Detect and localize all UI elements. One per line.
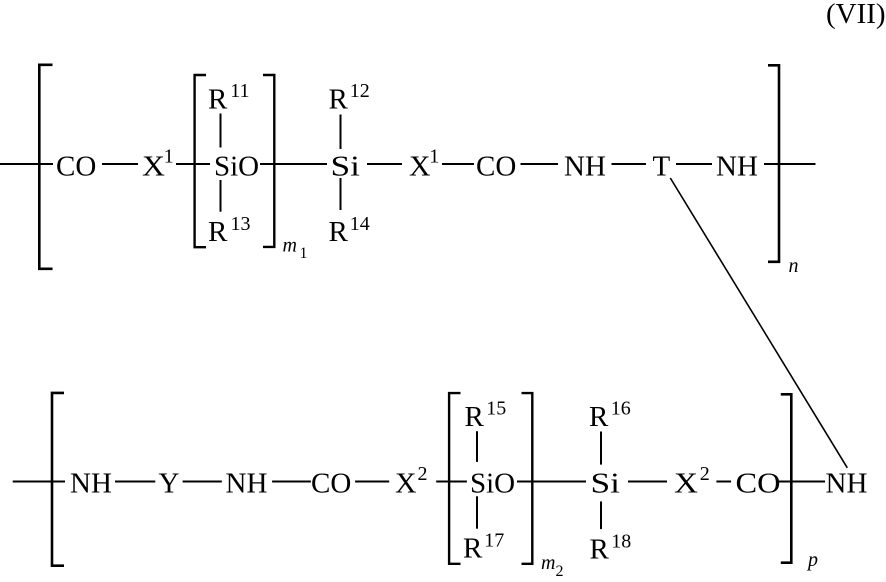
wire bond Si to X1 row1 xyxy=(367,163,402,165)
wire bond Y to NH row2 xyxy=(183,481,222,483)
bracket inner-right m1 group xyxy=(263,75,274,247)
wire bond X1 to CO row1 xyxy=(442,163,474,165)
wire bond SiO to R13 xyxy=(220,180,222,212)
svg-text:16: 16 xyxy=(611,398,631,420)
svg-text:15: 15 xyxy=(486,398,506,420)
wire bond CO to X1 row1 xyxy=(102,163,138,165)
svg-text:Si: Si xyxy=(331,151,361,183)
bracket outer-left row1 xyxy=(39,65,52,269)
svg-text:T: T xyxy=(653,151,671,183)
svg-text:NH: NH xyxy=(716,151,758,183)
wire bond R15 to SiO xyxy=(476,431,478,462)
wire bond Si to R18 xyxy=(600,501,602,529)
svg-text:18: 18 xyxy=(611,531,631,553)
svg-text:p: p xyxy=(806,549,818,571)
wire bond X2 to SiO group row2 xyxy=(436,481,467,483)
bracket outer-right row1 xyxy=(768,65,779,261)
svg-text:CO: CO xyxy=(476,151,516,183)
svg-text:R: R xyxy=(589,401,609,433)
wire bond T to NH row1 xyxy=(676,163,712,165)
wire bond Si to R14 xyxy=(340,178,342,210)
svg-text:R: R xyxy=(463,533,483,565)
svg-text:2: 2 xyxy=(556,563,564,577)
svg-text:(VII): (VII) xyxy=(826,0,886,30)
bracket inner-left m2 group xyxy=(449,393,460,564)
svg-text:m: m xyxy=(283,234,297,256)
svg-text:14: 14 xyxy=(350,213,370,235)
wire leading bond row1 xyxy=(0,163,53,165)
svg-text:NH: NH xyxy=(70,468,112,500)
svg-text:R: R xyxy=(329,83,349,115)
wire bond R11 to SiO xyxy=(220,114,222,148)
svg-text:12: 12 xyxy=(350,80,370,102)
wire bond CO to NH row1 xyxy=(521,163,559,165)
bracket outer-left row2 xyxy=(52,393,64,566)
svg-text:R: R xyxy=(329,216,349,248)
svg-text:SiO: SiO xyxy=(470,468,515,500)
svg-text:17: 17 xyxy=(484,530,504,552)
svg-text:X: X xyxy=(409,151,431,183)
wire bond CO to X2 row2 xyxy=(355,481,389,483)
wire bond X1 to SiO group row1 xyxy=(176,163,210,165)
svg-text:2: 2 xyxy=(418,463,428,485)
svg-text:m: m xyxy=(541,552,555,574)
wire bond X2 to CO row2 xyxy=(716,481,731,483)
svg-text:SiO: SiO xyxy=(214,151,259,183)
wire bond SiO group to Si row2 xyxy=(517,481,586,483)
svg-text:11: 11 xyxy=(230,80,249,102)
wire diagonal T to NH xyxy=(670,178,847,468)
wire bond Si to X2 row2 xyxy=(628,481,667,483)
wire bond SiO to R17 xyxy=(476,496,478,528)
wire bond NH to CO row2 xyxy=(272,481,311,483)
wire bond R16 to Si xyxy=(600,432,602,465)
svg-text:CO: CO xyxy=(56,151,96,183)
wire bond R12 to Si xyxy=(340,115,342,150)
wire bond SiO group to Si row1 xyxy=(260,163,327,165)
svg-text:Si: Si xyxy=(591,468,621,500)
bracket outer-right row2 xyxy=(781,394,792,562)
svg-text:Y: Y xyxy=(159,468,180,500)
svg-text:R: R xyxy=(590,534,610,566)
svg-text:n: n xyxy=(789,255,799,277)
svg-text:X: X xyxy=(395,468,417,500)
svg-text:R: R xyxy=(208,216,228,248)
svg-text:CO: CO xyxy=(311,468,351,500)
wire bond CO to NH row2 xyxy=(779,481,825,483)
svg-text:NH: NH xyxy=(564,151,606,183)
wire trailing bond row1 xyxy=(764,163,816,165)
svg-text:1: 1 xyxy=(300,245,308,262)
svg-text:R: R xyxy=(465,401,485,433)
bracket inner-right m2 group xyxy=(522,393,533,564)
wire leading bond row2 xyxy=(13,481,65,483)
bracket inner-left m1 group xyxy=(195,75,206,247)
svg-text:1: 1 xyxy=(164,146,174,168)
svg-text:X: X xyxy=(674,468,698,500)
svg-text:CO: CO xyxy=(736,468,781,500)
svg-text:1: 1 xyxy=(429,146,439,168)
wire bond NH to T row1 xyxy=(612,163,647,165)
svg-text:2: 2 xyxy=(700,463,710,485)
svg-text:13: 13 xyxy=(231,213,251,235)
svg-text:NH: NH xyxy=(826,468,868,500)
svg-text:NH: NH xyxy=(226,468,268,500)
svg-text:X: X xyxy=(142,151,165,183)
wire bond NH to Y row2 xyxy=(115,481,155,483)
svg-text:R: R xyxy=(208,83,228,115)
